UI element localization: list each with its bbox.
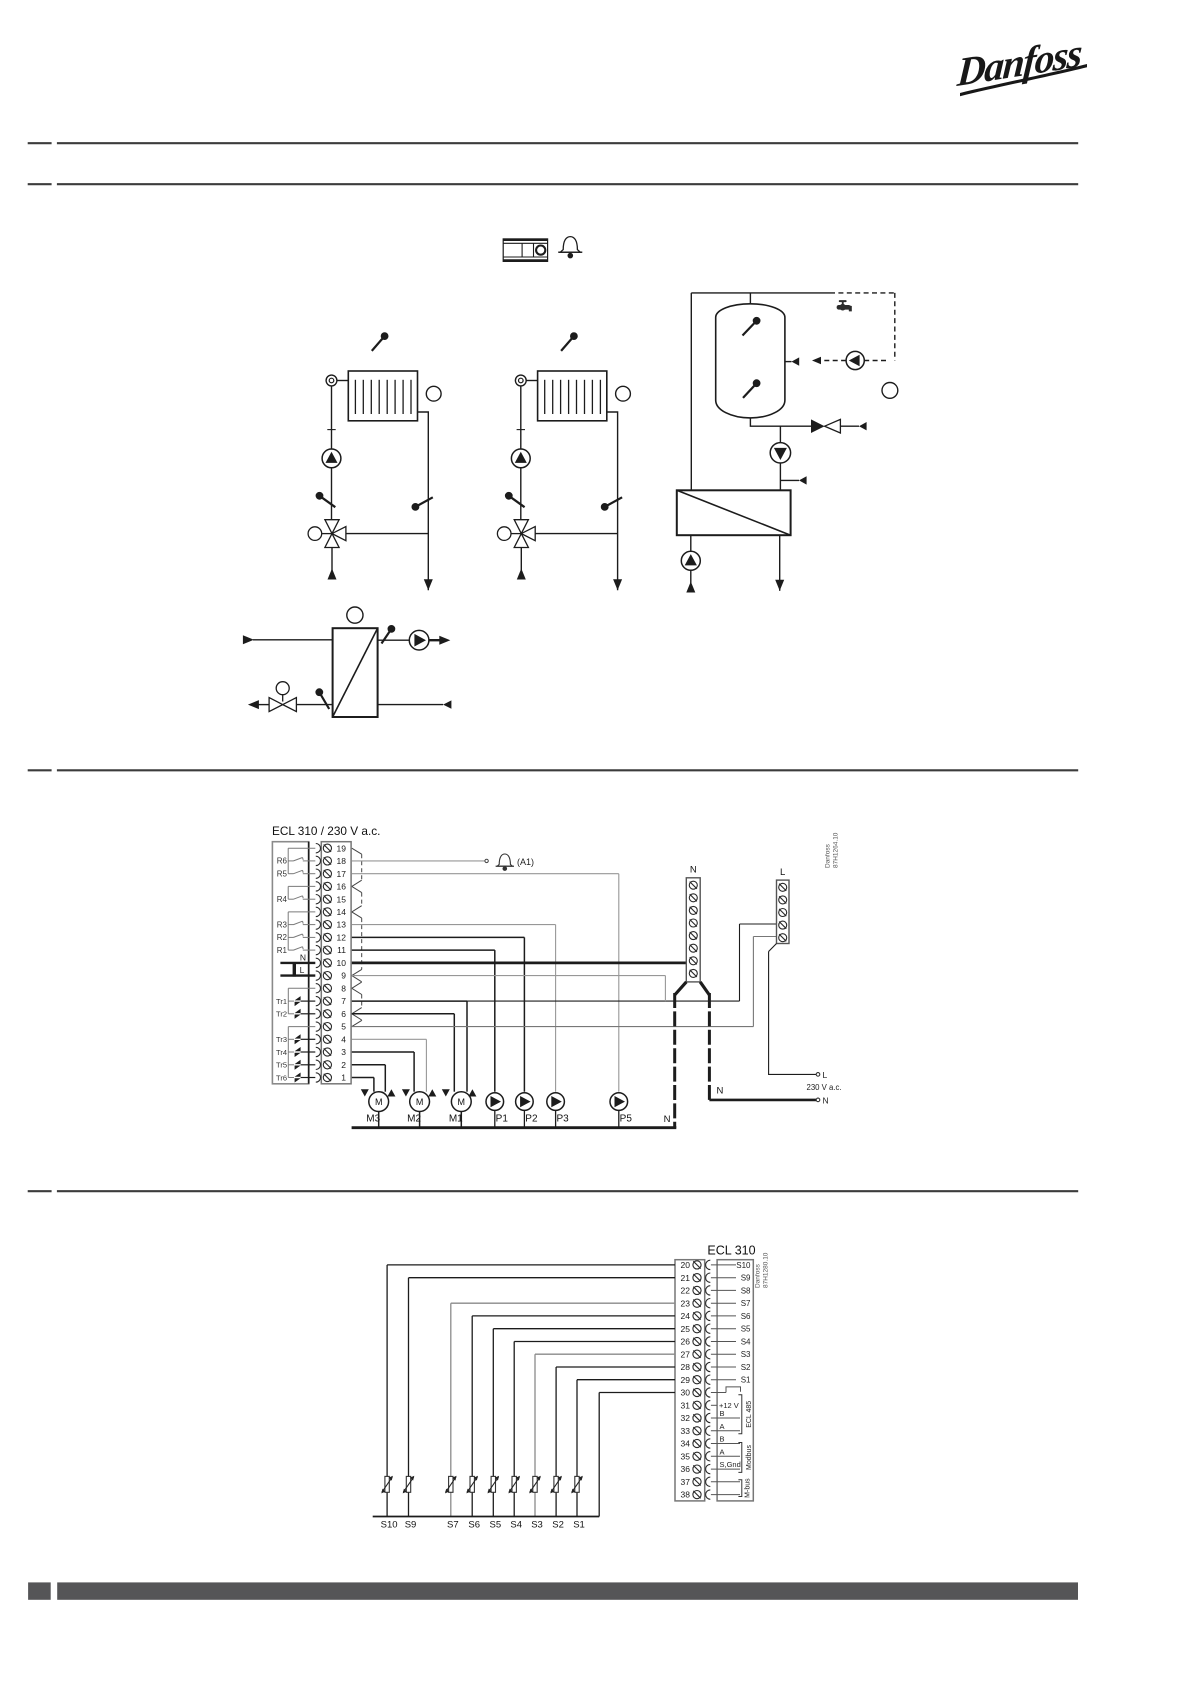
svg-text:37: 37 [681, 1477, 691, 1487]
svg-text:32: 32 [681, 1413, 691, 1423]
svg-text:P2: P2 [525, 1114, 538, 1125]
svg-text:19: 19 [337, 843, 347, 853]
svg-text:N: N [823, 1095, 829, 1105]
svg-text:15: 15 [337, 894, 347, 904]
svg-text:M: M [375, 1097, 383, 1107]
svg-text:S2: S2 [741, 1363, 751, 1372]
svg-text:S6: S6 [741, 1312, 751, 1321]
svg-text:17: 17 [337, 869, 347, 879]
svg-text:S7: S7 [741, 1299, 751, 1308]
svg-text:L: L [823, 1070, 828, 1080]
svg-text:31: 31 [681, 1400, 691, 1410]
svg-text:S9: S9 [405, 1520, 417, 1531]
svg-text:Tr3: Tr3 [276, 1035, 287, 1044]
svg-text:A: A [720, 1422, 725, 1431]
svg-text:2: 2 [341, 1060, 346, 1070]
svg-text:24: 24 [681, 1311, 691, 1321]
svg-text:23: 23 [681, 1298, 691, 1308]
svg-text:S10: S10 [381, 1520, 398, 1531]
svg-text:S9: S9 [741, 1274, 751, 1283]
svg-text:Tr6: Tr6 [276, 1073, 287, 1082]
svg-text:20: 20 [681, 1260, 691, 1270]
svg-text:N: N [300, 952, 306, 962]
svg-text:1: 1 [341, 1073, 346, 1083]
svg-text:L: L [300, 965, 305, 975]
svg-text:R6: R6 [277, 857, 288, 866]
svg-text:28: 28 [681, 1362, 691, 1372]
svg-text:8: 8 [341, 983, 346, 993]
svg-text:87H1280.10: 87H1280.10 [763, 1252, 770, 1288]
svg-text:Danfoss: Danfoss [825, 843, 832, 868]
svg-text:Danfoss: Danfoss [755, 1263, 762, 1288]
svg-text:34: 34 [681, 1439, 691, 1449]
svg-text:R4: R4 [277, 895, 288, 904]
svg-text:22: 22 [681, 1286, 691, 1296]
svg-text:S3: S3 [741, 1350, 751, 1359]
svg-text:18: 18 [337, 856, 347, 866]
svg-text:B: B [720, 1409, 725, 1418]
svg-text:N: N [690, 865, 697, 876]
svg-text:5: 5 [341, 1022, 346, 1032]
svg-text:S10: S10 [736, 1261, 751, 1270]
svg-text:25: 25 [681, 1324, 691, 1334]
svg-text:26: 26 [681, 1337, 691, 1347]
svg-text:9: 9 [341, 971, 346, 981]
svg-text:R3: R3 [277, 920, 288, 929]
svg-text:L: L [780, 867, 785, 878]
svg-text:Tr4: Tr4 [276, 1048, 287, 1057]
svg-text:14: 14 [337, 907, 347, 917]
svg-text:P3: P3 [556, 1114, 569, 1125]
svg-text:33: 33 [681, 1426, 691, 1436]
svg-text:16: 16 [337, 882, 347, 892]
svg-text:M: M [458, 1097, 466, 1107]
svg-text:13: 13 [337, 920, 347, 930]
svg-text:6: 6 [341, 1009, 346, 1019]
svg-text:M: M [416, 1097, 424, 1107]
svg-text:S1: S1 [741, 1376, 751, 1385]
svg-text:27: 27 [681, 1349, 691, 1359]
svg-text:N: N [717, 1086, 724, 1097]
svg-text:ECL 485: ECL 485 [746, 1401, 753, 1428]
svg-text:Modbus: Modbus [746, 1445, 753, 1470]
svg-text:29: 29 [681, 1375, 691, 1385]
svg-text:Tr2: Tr2 [276, 1010, 287, 1019]
svg-text:10: 10 [337, 958, 347, 968]
svg-text:S5: S5 [741, 1325, 751, 1334]
svg-text:35: 35 [681, 1451, 691, 1461]
svg-text:B: B [720, 1435, 725, 1444]
svg-text:Tr1: Tr1 [276, 997, 287, 1006]
svg-text:S3: S3 [531, 1520, 543, 1531]
svg-text:30: 30 [681, 1388, 691, 1398]
svg-text:R5: R5 [277, 870, 288, 879]
svg-text:R1: R1 [277, 946, 288, 955]
svg-text:S,Gnd: S,Gnd [720, 1460, 741, 1469]
svg-text:11: 11 [337, 945, 346, 955]
svg-text:3: 3 [341, 1047, 346, 1057]
svg-text:Tr5: Tr5 [276, 1061, 287, 1070]
svg-text:ECL 310 / 230 V a.c.: ECL 310 / 230 V a.c. [272, 824, 380, 838]
svg-text:R2: R2 [277, 933, 288, 942]
svg-text:P1: P1 [496, 1114, 509, 1125]
svg-text:S2: S2 [552, 1520, 564, 1531]
svg-text:S4: S4 [741, 1338, 751, 1347]
svg-text:S5: S5 [489, 1520, 501, 1531]
svg-text:12: 12 [337, 933, 347, 943]
svg-text:21: 21 [681, 1273, 691, 1283]
svg-text:7: 7 [341, 996, 346, 1006]
svg-text:S1: S1 [573, 1520, 585, 1531]
svg-text:A: A [720, 1447, 725, 1456]
svg-text:36: 36 [681, 1464, 691, 1474]
svg-text:S8: S8 [741, 1286, 751, 1295]
svg-text:S4: S4 [510, 1520, 522, 1531]
svg-text:(A1): (A1) [517, 857, 534, 867]
svg-text:N: N [664, 1114, 671, 1125]
svg-text:P5: P5 [620, 1114, 633, 1125]
svg-text:38: 38 [681, 1490, 691, 1500]
svg-text:87H1264.10: 87H1264.10 [833, 832, 840, 868]
svg-text:S6: S6 [468, 1520, 480, 1531]
svg-text:4: 4 [341, 1034, 346, 1044]
svg-text:M-bus: M-bus [745, 1478, 752, 1498]
svg-text:S7: S7 [447, 1520, 459, 1531]
svg-text:ECL 310: ECL 310 [707, 1244, 755, 1258]
svg-text:230 V a.c.: 230 V a.c. [807, 1083, 842, 1092]
